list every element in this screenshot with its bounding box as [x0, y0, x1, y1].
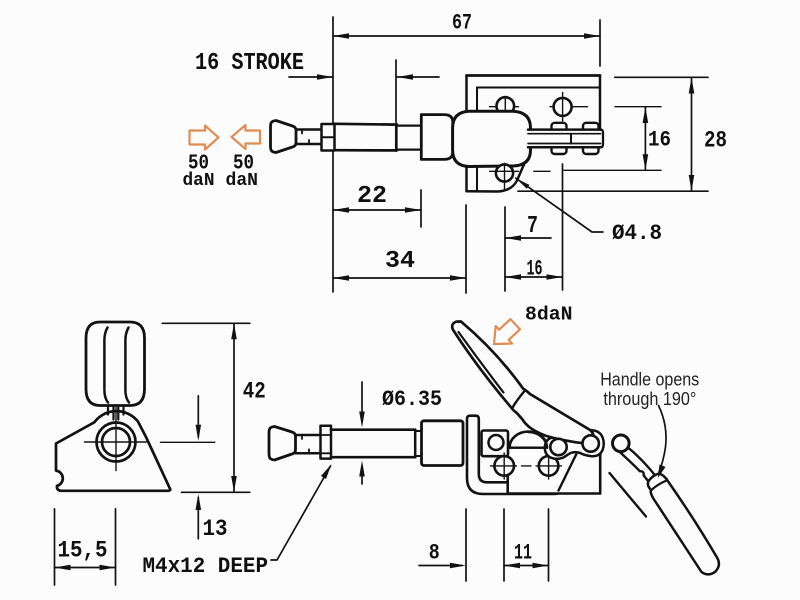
rod (side view)	[331, 428, 415, 431]
handle lever + grip (side view, white fill)	[452, 322, 594, 444]
grip neck (front view)	[107, 406, 109, 415]
svg-text:Handle opens: Handle opens	[600, 370, 699, 390]
svg-text:Ø4.8: Ø4.8	[612, 221, 662, 246]
bearing block with hole	[482, 431, 509, 457]
hex nut (side view)	[321, 426, 332, 459]
bottom hole 4.8	[496, 164, 513, 181]
ghost handle grip	[648, 474, 719, 575]
svg-text:daN: daN	[226, 170, 259, 191]
dimension 16 STROKE arrows	[289, 76, 333, 78]
mounting holes (side view)	[494, 456, 514, 476]
M4 leader	[271, 466, 331, 560]
svg-text:22: 22	[357, 183, 387, 210]
dim 6.35 arrows	[361, 382, 363, 422]
body boss (cylinder)	[421, 115, 453, 160]
extension line x=505 (7/16 dim left)	[504, 207, 506, 291]
extension line x=562.5 (16 dim right)	[562, 164, 564, 290]
pivot pins	[550, 439, 566, 455]
knob (side view)	[269, 427, 296, 461]
dimension 67 line	[333, 35, 600, 37]
dim 42/13 extension bottom	[182, 491, 250, 493]
extension line 28 bottom	[518, 190, 708, 192]
svg-text:42: 42	[243, 379, 266, 405]
handle-opens leader curve	[659, 406, 667, 473]
extension lines 8/11	[465, 509, 467, 581]
crosshair front view	[115, 408, 117, 471]
plate hole left	[497, 97, 515, 115]
rod second section	[397, 124, 422, 126]
svg-text:16: 16	[648, 128, 671, 153]
cam arch	[510, 432, 548, 448]
extension line 28 top	[615, 76, 708, 78]
50daN arrow right-pointing (orange)	[190, 126, 219, 150]
ghost collar line	[651, 481, 667, 491]
plate foot (bottom bracket outline)	[467, 154, 529, 192]
svg-text:M4x12 DEEP: M4x12 DEEP	[143, 554, 269, 579]
plunger rod	[335, 122, 397, 125]
neck (side view)	[296, 434, 321, 437]
dim 13 up-arrow	[197, 498, 199, 539]
dimension 34 line	[333, 277, 466, 279]
bracket plate (front view)	[56, 411, 170, 491]
centerline holes y=106.7	[490, 106, 519, 108]
svg-text:16: 16	[527, 257, 543, 282]
extension line x=333 (stroke/22/34 datum)	[332, 17, 334, 292]
dim 15,5 extension lines	[54, 509, 56, 585]
dimension 16 (bottom of top view)	[505, 276, 563, 278]
dimension 7 arrow	[505, 237, 551, 239]
plate hole right	[554, 98, 572, 116]
ghost second line	[610, 473, 647, 517]
extension line x=421 (22 dim right)	[420, 190, 422, 227]
centerline down-arrow	[197, 396, 199, 437]
dim 42 line	[233, 323, 235, 492]
extension line x=396 (16 stroke right)	[395, 60, 397, 122]
svg-text:15,5: 15,5	[58, 538, 108, 564]
rod step	[415, 430, 421, 432]
dimension 28 vertical	[691, 78, 693, 192]
centerline bottom hole extension	[564, 169, 661, 171]
ghost handle shaft	[628, 448, 660, 484]
dim 42 extension top	[162, 322, 250, 324]
dimension 22 line	[333, 209, 421, 211]
svg-text:34: 34	[385, 248, 415, 275]
dim 15,5 line	[55, 567, 116, 569]
svg-text:16 STROKE: 16 STROKE	[195, 50, 304, 77]
8daN orange arrow	[486, 315, 524, 352]
svg-text:67: 67	[452, 11, 472, 36]
boss inner circle	[102, 428, 130, 456]
clamp body (top view blob)	[453, 111, 531, 166]
knob neck	[296, 128, 322, 131]
body block (side view)	[508, 448, 601, 494]
ghost handle ring	[613, 435, 630, 452]
dim 11	[504, 565, 549, 567]
svg-text:13: 13	[203, 516, 228, 543]
svg-text:8: 8	[429, 541, 440, 566]
plunger knob (top view)	[271, 121, 297, 153]
handle grip (front view)	[86, 322, 145, 406]
boss outer circle	[97, 423, 136, 462]
grip ridges	[104, 328, 108, 403]
linkage bar (top view)	[528, 130, 601, 148]
extension line x=466 (34 dim right)	[465, 205, 467, 293]
50daN arrow left-pointing (orange)	[232, 125, 261, 149]
leader 4.8	[516, 178, 603, 232]
centerline right segment	[161, 441, 215, 443]
dimension 16 vertical (right)	[644, 107, 646, 170]
dim 8 arrow	[419, 565, 462, 567]
cylinder (side view)	[422, 421, 464, 466]
extension line x=600 (67 dim right)	[599, 20, 601, 66]
grip inner line	[459, 332, 504, 393]
svg-text:Ø6.35: Ø6.35	[382, 387, 442, 412]
hex nut on plunger	[322, 124, 335, 151]
L-bracket (side view)	[467, 416, 564, 494]
cam arch right flank restroke	[529, 432, 548, 448]
svg-text:28: 28	[704, 128, 727, 154]
mounting plate (top view, L-shaped)	[467, 76, 601, 192]
grip end cap	[512, 391, 525, 409]
svg-text:daN: daN	[183, 170, 215, 191]
svg-text:11: 11	[514, 541, 532, 566]
body interior diagonal edge	[559, 454, 577, 490]
svg-text:through 190°: through 190°	[603, 389, 696, 409]
svg-text:7: 7	[527, 213, 538, 240]
linkage pin tabs (top view)	[552, 123, 567, 132]
link plate (side view)	[545, 430, 604, 459]
svg-text:8daN: 8daN	[525, 304, 573, 326]
